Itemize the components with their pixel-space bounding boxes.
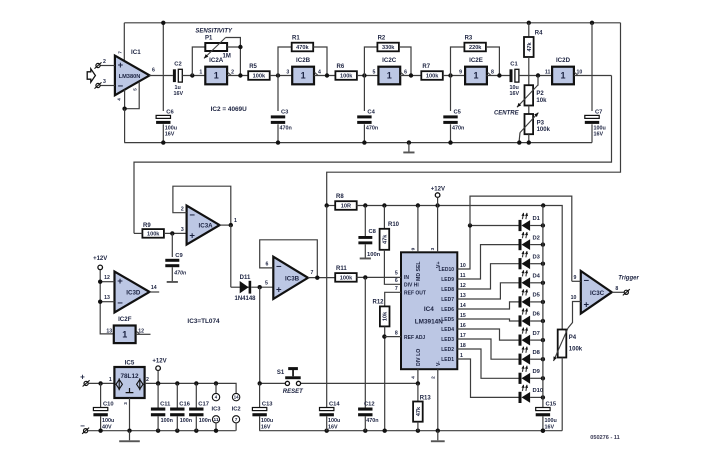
svg-text:18: 18: [460, 343, 466, 349]
svg-text:D4: D4: [533, 274, 541, 280]
svg-text:+12V: +12V: [431, 186, 445, 192]
svg-text:LM380N: LM380N: [119, 74, 141, 80]
svg-text:3: 3: [181, 227, 184, 233]
svg-text:15: 15: [460, 313, 466, 319]
svg-text:100u: 100u: [165, 125, 177, 131]
svg-text:−: −: [276, 261, 282, 272]
svg-text:100n: 100n: [199, 418, 211, 424]
svg-text:LED1: LED1: [441, 357, 454, 363]
svg-text:P4: P4: [569, 335, 577, 341]
svg-text:14: 14: [234, 395, 239, 400]
svg-text:3: 3: [286, 70, 289, 76]
svg-text:IC2C: IC2C: [382, 57, 397, 64]
svg-text:IC2A: IC2A: [209, 57, 224, 64]
svg-text:IC4: IC4: [424, 306, 434, 313]
svg-text:2: 2: [231, 70, 234, 76]
svg-text:R11: R11: [336, 266, 347, 272]
svg-text:1: 1: [473, 71, 478, 81]
svg-text:P2: P2: [536, 91, 544, 97]
svg-text:1N4148: 1N4148: [234, 296, 256, 302]
svg-text:+: +: [80, 372, 85, 381]
svg-text:C11: C11: [160, 401, 171, 407]
svg-text:9: 9: [574, 275, 577, 281]
svg-text:470n: 470n: [280, 125, 292, 131]
svg-text:14: 14: [460, 303, 466, 309]
svg-text:REF OUT: REF OUT: [404, 291, 426, 297]
svg-text:D5: D5: [533, 293, 541, 299]
svg-text:100u: 100u: [261, 418, 273, 424]
svg-text:D10: D10: [533, 388, 544, 394]
svg-text:470n: 470n: [366, 125, 378, 131]
svg-text:C7: C7: [595, 109, 602, 115]
svg-text:C2: C2: [174, 62, 181, 68]
svg-text:R7: R7: [422, 64, 430, 70]
svg-text:1: 1: [199, 70, 202, 76]
svg-text:LED4: LED4: [441, 327, 454, 333]
svg-text:1: 1: [301, 71, 306, 81]
svg-text:100u: 100u: [594, 125, 606, 131]
svg-text:100k: 100k: [340, 276, 353, 282]
svg-text:9: 9: [410, 247, 416, 250]
svg-text:C6: C6: [166, 109, 174, 115]
svg-text:C14: C14: [329, 401, 340, 407]
svg-text:220k: 220k: [469, 45, 482, 51]
svg-text:100u: 100u: [545, 418, 557, 424]
svg-text:1: 1: [234, 218, 237, 224]
svg-text:R12: R12: [373, 300, 385, 306]
svg-text:−: −: [117, 298, 123, 309]
svg-text:R2: R2: [378, 36, 386, 42]
svg-text:C1: C1: [510, 62, 518, 68]
svg-text:+12V: +12V: [93, 256, 107, 262]
svg-text:7: 7: [395, 286, 398, 292]
svg-text:1M: 1M: [223, 54, 231, 60]
svg-text:2: 2: [146, 377, 149, 383]
svg-text:+: +: [118, 60, 124, 71]
svg-text:2: 2: [181, 207, 184, 213]
svg-text:3: 3: [123, 402, 128, 405]
svg-text:LM3914N: LM3914N: [415, 319, 443, 326]
svg-text:11: 11: [213, 417, 218, 423]
svg-text:IC5: IC5: [125, 360, 135, 367]
svg-text:DIV HI: DIV HI: [404, 283, 419, 289]
svg-text:IC2 = 4069U: IC2 = 4069U: [211, 106, 247, 113]
svg-text:6: 6: [395, 278, 398, 284]
svg-text:MD SEL: MD SEL: [416, 261, 422, 281]
svg-text:100k: 100k: [147, 232, 160, 238]
svg-text:1: 1: [122, 330, 127, 340]
svg-text:16: 16: [460, 323, 466, 329]
svg-text:10k: 10k: [536, 98, 547, 104]
svg-text:13: 13: [106, 328, 112, 334]
svg-text:S1: S1: [277, 370, 285, 376]
svg-text:11: 11: [545, 70, 551, 76]
svg-text:C16: C16: [179, 401, 190, 407]
svg-text:100n: 100n: [367, 252, 381, 258]
svg-text:13: 13: [104, 295, 110, 301]
svg-text:6: 6: [152, 68, 155, 74]
svg-text:4: 4: [318, 70, 321, 76]
svg-text:LED2: LED2: [441, 347, 454, 353]
svg-text:C5: C5: [454, 109, 462, 115]
svg-text:16V: 16V: [510, 91, 520, 97]
svg-text:+: +: [189, 230, 195, 241]
svg-text:LED6: LED6: [441, 307, 454, 313]
svg-text:LED7: LED7: [441, 297, 454, 303]
svg-text:5: 5: [372, 70, 375, 76]
svg-text:D7: D7: [533, 331, 540, 337]
svg-text:470n: 470n: [173, 271, 186, 277]
svg-text:100k: 100k: [253, 74, 266, 80]
svg-text:14: 14: [151, 285, 157, 291]
svg-text:1: 1: [560, 71, 565, 81]
svg-text:R10: R10: [388, 222, 400, 228]
svg-text:100u: 100u: [328, 418, 340, 424]
svg-text:IC2F: IC2F: [118, 316, 132, 323]
svg-text:6: 6: [266, 262, 269, 268]
svg-text:10u: 10u: [510, 85, 519, 91]
svg-text:10k: 10k: [383, 311, 389, 321]
svg-text:IC3: IC3: [211, 407, 221, 413]
svg-text:IN: IN: [404, 275, 409, 281]
svg-text:4: 4: [411, 376, 417, 379]
svg-text:16V: 16V: [165, 132, 175, 138]
svg-text:−: −: [118, 81, 124, 92]
svg-text:10: 10: [460, 263, 466, 269]
svg-text:2: 2: [103, 59, 106, 65]
svg-text:78L12: 78L12: [120, 373, 139, 380]
svg-text:100k: 100k: [569, 347, 583, 353]
svg-text:C8: C8: [369, 229, 377, 235]
svg-text:C3: C3: [281, 109, 289, 115]
svg-text:+: +: [276, 285, 282, 296]
svg-text:LED5: LED5: [441, 317, 454, 323]
svg-text:47k: 47k: [527, 41, 533, 51]
svg-text:C9: C9: [175, 253, 183, 259]
svg-text:100k: 100k: [426, 74, 439, 80]
svg-text:+: +: [117, 276, 123, 287]
svg-text:5: 5: [395, 271, 398, 277]
svg-text:47k: 47k: [382, 234, 388, 244]
svg-text:R8: R8: [336, 194, 344, 200]
svg-text:IC3C: IC3C: [590, 290, 605, 297]
svg-text:100u: 100u: [102, 418, 114, 424]
svg-text:P3: P3: [537, 120, 545, 126]
svg-text:IC2: IC2: [232, 407, 241, 413]
svg-text:CENTRE: CENTRE: [494, 111, 520, 117]
svg-text:47k: 47k: [416, 406, 422, 416]
svg-text:5: 5: [265, 281, 268, 287]
svg-text:3: 3: [430, 247, 436, 250]
svg-text:IC3=TL074: IC3=TL074: [187, 318, 220, 325]
svg-text:RESET: RESET: [283, 389, 304, 395]
svg-text:D8: D8: [533, 350, 541, 356]
svg-text:10: 10: [571, 295, 577, 301]
svg-text:R13: R13: [420, 395, 432, 401]
svg-text:4: 4: [116, 98, 121, 101]
svg-text:+12V: +12V: [152, 359, 166, 365]
svg-text:IC2B: IC2B: [296, 57, 311, 64]
svg-text:LED9: LED9: [441, 277, 454, 283]
svg-text:D2: D2: [533, 235, 540, 241]
svg-text:R5: R5: [249, 64, 257, 70]
svg-text:1: 1: [109, 377, 112, 383]
svg-text:050276 - 11: 050276 - 11: [590, 435, 620, 441]
svg-text:16V: 16V: [545, 424, 555, 430]
svg-text:7: 7: [235, 417, 238, 423]
svg-text:9: 9: [459, 70, 462, 76]
svg-text:2: 2: [430, 376, 436, 379]
svg-text:7: 7: [118, 51, 123, 54]
svg-text:1: 1: [460, 353, 463, 359]
svg-text:Trigger: Trigger: [618, 275, 639, 281]
svg-text:1u: 1u: [175, 85, 181, 91]
svg-text:100k: 100k: [537, 127, 551, 133]
svg-text:16V: 16V: [328, 424, 338, 430]
svg-text:LED3: LED3: [441, 337, 454, 343]
svg-text:16V: 16V: [261, 424, 271, 430]
svg-text:100n: 100n: [180, 418, 192, 424]
svg-text:IC1: IC1: [131, 49, 141, 56]
svg-text:11: 11: [460, 273, 466, 279]
svg-text:7: 7: [311, 270, 314, 276]
svg-text:R9: R9: [143, 223, 151, 229]
svg-text:1: 1: [214, 71, 219, 81]
svg-text:IC3D: IC3D: [126, 290, 141, 297]
svg-text:D3: D3: [533, 254, 541, 260]
svg-text:470n: 470n: [366, 418, 378, 424]
svg-text:330k: 330k: [382, 45, 395, 51]
svg-text:16V: 16V: [174, 91, 184, 97]
svg-text:470k: 470k: [296, 45, 309, 51]
svg-text:LED10: LED10: [438, 267, 454, 273]
svg-text:R6: R6: [337, 64, 345, 70]
svg-text:REF ADJ: REF ADJ: [404, 335, 425, 341]
svg-text:C4: C4: [367, 109, 375, 115]
svg-text:LED8: LED8: [441, 287, 454, 293]
svg-text:C17: C17: [198, 401, 209, 407]
svg-text:IC3A: IC3A: [199, 223, 214, 230]
svg-text:D1: D1: [533, 216, 541, 222]
svg-text:C13: C13: [262, 401, 273, 407]
svg-text:100k: 100k: [340, 74, 353, 80]
svg-text:8: 8: [395, 330, 398, 336]
svg-text:6: 6: [404, 70, 407, 76]
svg-text:R4: R4: [535, 31, 543, 37]
svg-text:470n: 470n: [452, 125, 464, 131]
svg-text:IC2E: IC2E: [469, 57, 483, 64]
svg-text:13: 13: [460, 293, 466, 299]
svg-text:R1: R1: [292, 36, 300, 42]
svg-text:+: +: [584, 299, 590, 310]
svg-text:SENSITIVITY: SENSITIVITY: [195, 28, 233, 34]
svg-text:12: 12: [104, 275, 110, 281]
svg-text:8: 8: [615, 286, 618, 292]
svg-text:D6: D6: [533, 312, 541, 318]
svg-text:IC2D: IC2D: [556, 57, 571, 64]
svg-text:40V: 40V: [102, 424, 112, 430]
svg-text:C15: C15: [546, 401, 557, 407]
svg-text:1: 1: [387, 71, 392, 81]
svg-text:12: 12: [460, 283, 466, 289]
svg-text:C10: C10: [103, 401, 114, 407]
svg-text:R3: R3: [465, 36, 473, 42]
svg-text:D11: D11: [240, 275, 251, 281]
svg-text:3: 3: [103, 79, 106, 85]
svg-text:−: −: [584, 276, 590, 287]
svg-text:100n: 100n: [161, 418, 173, 424]
svg-text:8: 8: [491, 70, 494, 76]
svg-text:10R: 10R: [341, 204, 351, 210]
svg-text:DIV LO: DIV LO: [416, 349, 422, 366]
svg-text:16V: 16V: [594, 132, 604, 138]
svg-text:5: 5: [132, 88, 137, 91]
svg-text:P1: P1: [205, 36, 213, 42]
svg-text:−: −: [189, 210, 195, 221]
svg-text:D9: D9: [533, 369, 541, 375]
svg-text:17: 17: [460, 333, 466, 339]
svg-text:IC3B: IC3B: [285, 276, 300, 283]
svg-text:C12: C12: [364, 401, 375, 407]
